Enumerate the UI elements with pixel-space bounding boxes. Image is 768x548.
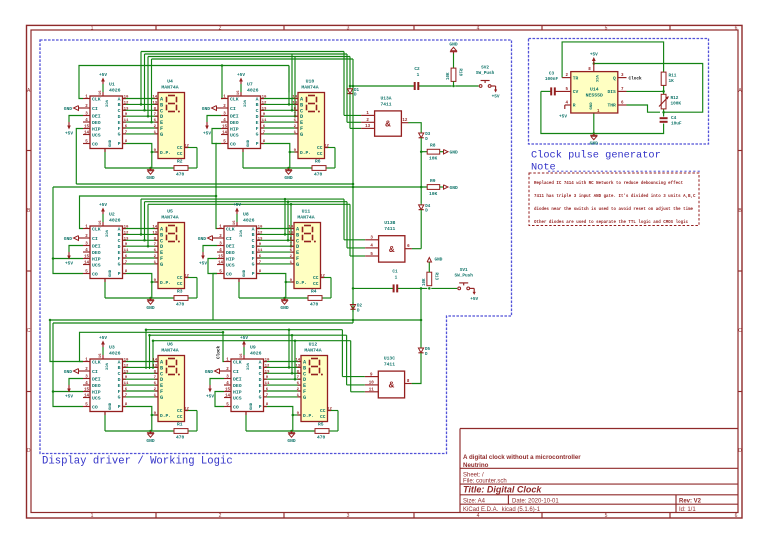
svg-text:R6: R6: [315, 159, 321, 165]
svg-text:GND: GND: [146, 175, 155, 181]
svg-text:4: 4: [477, 25, 480, 31]
svg-text:+5V: +5V: [199, 262, 207, 267]
svg-text:R5: R5: [318, 422, 324, 428]
svg-text:F: F: [252, 256, 255, 262]
svg-text:P: P: [118, 271, 121, 277]
svg-text:16: 16: [237, 90, 241, 95]
svg-text:14: 14: [152, 226, 157, 230]
svg-text:D.P.: D.P.: [300, 150, 311, 156]
svg-text:2: 2: [219, 513, 222, 519]
svg-text:CI: CI: [233, 369, 239, 375]
svg-text:U6: U6: [167, 342, 173, 348]
svg-text:A: A: [256, 96, 259, 102]
svg-text:GND: GND: [109, 139, 113, 147]
svg-text:CI: CI: [92, 369, 98, 375]
svg-text:10K: 10K: [423, 278, 427, 286]
svg-text:THR: THR: [608, 103, 617, 109]
svg-text:GND: GND: [243, 269, 247, 277]
svg-text:2: 2: [219, 25, 222, 31]
svg-text:14: 14: [225, 394, 231, 398]
svg-text:G: G: [118, 262, 121, 268]
svg-text:C: C: [118, 238, 121, 244]
svg-text:16: 16: [99, 220, 103, 225]
svg-text:MAN74A: MAN74A: [161, 85, 178, 91]
svg-text:+5V: +5V: [99, 336, 107, 341]
svg-text:B: B: [259, 365, 262, 371]
svg-text:GND: GND: [202, 106, 211, 112]
svg-text:C: C: [259, 371, 262, 377]
svg-text:Title: Digital Clock: Title: Digital Clock: [463, 485, 542, 495]
svg-text:GND: GND: [109, 402, 113, 410]
svg-text:+5V: +5V: [65, 262, 73, 267]
svg-text:D: D: [256, 114, 259, 120]
svg-text:CI: CI: [230, 106, 236, 112]
svg-text:+5V: +5V: [237, 73, 245, 78]
svg-text:P: P: [118, 404, 121, 410]
svg-text:U9: U9: [250, 345, 256, 351]
svg-text:GND: GND: [198, 236, 207, 242]
svg-text:CC: CC: [320, 414, 326, 420]
svg-text:Size: A4: Size: A4: [463, 499, 486, 505]
svg-text:D: D: [252, 244, 255, 250]
svg-text:6: 6: [735, 25, 738, 31]
svg-text:15: 15: [84, 125, 90, 129]
svg-text:13: 13: [152, 364, 157, 368]
svg-text:4026: 4026: [247, 88, 259, 94]
svg-text:P: P: [118, 141, 121, 147]
svg-text:R2: R2: [177, 159, 183, 165]
svg-text:4: 4: [477, 513, 480, 519]
svg-text:DEO: DEO: [92, 383, 101, 389]
svg-text:+5V: +5V: [559, 115, 567, 120]
svg-text:14: 14: [84, 261, 90, 265]
svg-text:CC: CC: [317, 151, 323, 157]
svg-text:14: 14: [222, 131, 228, 135]
svg-text:SV1: SV1: [460, 268, 468, 273]
svg-text:A: A: [118, 226, 121, 232]
svg-text:13: 13: [292, 101, 297, 105]
svg-text:Neutrino: Neutrino: [463, 462, 489, 469]
svg-text:CLK: CLK: [226, 226, 235, 232]
svg-text:U3: U3: [109, 345, 115, 351]
svg-text:SW_Push: SW_Push: [476, 71, 495, 76]
svg-text:DEO: DEO: [230, 120, 239, 126]
svg-text:DEI: DEI: [92, 376, 101, 382]
svg-text:Note: Note: [531, 162, 556, 174]
svg-text:HIP: HIP: [92, 256, 101, 262]
svg-text:7411: 7411: [384, 362, 395, 368]
svg-text:CC: CC: [320, 408, 326, 414]
svg-text:16: 16: [99, 90, 103, 95]
svg-text:13: 13: [288, 231, 293, 235]
svg-text:GND: GND: [109, 269, 113, 277]
svg-text:470: 470: [310, 301, 319, 307]
svg-text:D: D: [738, 448, 742, 454]
svg-text:14: 14: [292, 96, 297, 100]
svg-text:CI: CI: [226, 236, 232, 242]
svg-text:D.P.: D.P.: [296, 280, 307, 286]
svg-text:7411: 7411: [384, 226, 395, 232]
svg-text:CO: CO: [92, 141, 98, 147]
svg-text:C: C: [118, 371, 121, 377]
svg-text:HIP: HIP: [233, 389, 242, 395]
svg-text:DEI: DEI: [226, 243, 235, 249]
svg-text:U11: U11: [302, 209, 311, 215]
svg-text:B: B: [118, 102, 121, 108]
svg-text:&: &: [389, 381, 395, 391]
svg-text:CC: CC: [177, 408, 183, 414]
svg-text:470: 470: [317, 434, 326, 440]
svg-text:100nF: 100nF: [545, 77, 559, 82]
svg-text:12: 12: [402, 119, 408, 123]
svg-text:15: 15: [225, 388, 231, 392]
svg-text:C1: C1: [392, 270, 398, 275]
svg-text:A: A: [259, 359, 262, 365]
svg-text:B: B: [118, 232, 121, 238]
svg-text:3: 3: [347, 25, 350, 31]
svg-text:+5V: +5V: [203, 132, 211, 137]
svg-text:A: A: [252, 226, 255, 232]
svg-text:D.P.: D.P.: [160, 150, 171, 156]
svg-text:P: P: [252, 271, 255, 277]
svg-text:R3: R3: [177, 289, 183, 295]
svg-text:G: G: [259, 395, 262, 401]
svg-text:CO: CO: [233, 404, 239, 410]
svg-text:F: F: [118, 256, 121, 262]
svg-text:14: 14: [84, 394, 90, 398]
svg-text:HIP: HIP: [226, 256, 235, 262]
svg-text:10K: 10K: [429, 191, 438, 197]
svg-text:GND: GND: [450, 185, 459, 191]
svg-text:DEI: DEI: [230, 113, 239, 119]
svg-text:U8: U8: [243, 212, 249, 218]
svg-text:Rev: V2: Rev: V2: [679, 499, 702, 505]
svg-text:R1: R1: [177, 422, 183, 428]
svg-text:GND: GND: [250, 402, 254, 410]
svg-text:Display driver / Working Logic: Display driver / Working Logic: [42, 456, 233, 468]
svg-text:D: D: [27, 448, 31, 454]
svg-text:GND: GND: [284, 175, 293, 181]
svg-text:CC: CC: [177, 275, 183, 281]
svg-text:U13A: U13A: [380, 95, 391, 101]
svg-text:GND: GND: [450, 150, 459, 156]
svg-text:6: 6: [735, 513, 738, 519]
svg-text:+5V: +5V: [470, 297, 478, 302]
svg-text:U1: U1: [109, 82, 115, 88]
svg-text:GND: GND: [146, 305, 155, 311]
svg-text:MAN74A: MAN74A: [301, 85, 318, 91]
svg-text:KiCad E.D.A. kicad (5.1.6)-1: KiCad E.D.A. kicad (5.1.6)-1: [463, 507, 541, 513]
svg-text:VCC: VCC: [238, 230, 242, 238]
svg-text:14: 14: [288, 226, 293, 230]
svg-text:4026: 4026: [243, 218, 255, 224]
svg-text:CI: CI: [92, 236, 98, 242]
svg-text:G: G: [160, 395, 163, 401]
svg-text:3: 3: [347, 513, 350, 519]
svg-text:E: E: [252, 250, 255, 256]
svg-text:F: F: [259, 389, 262, 395]
svg-text:Q: Q: [613, 75, 616, 81]
svg-text:470: 470: [176, 434, 185, 440]
svg-text:UCS: UCS: [92, 395, 101, 401]
svg-text:D: D: [118, 114, 121, 120]
svg-text:G: G: [160, 262, 163, 268]
svg-text:SW_Push: SW_Push: [454, 273, 473, 278]
svg-text:CC: CC: [177, 151, 183, 157]
svg-text:7411: 7411: [380, 101, 391, 107]
svg-text:Replaced IC 7414 with RC Netwo: Replaced IC 7414 with RC Network to redu…: [534, 181, 684, 186]
svg-text:U5: U5: [167, 209, 173, 215]
svg-text:R10: R10: [458, 69, 462, 77]
svg-text:4026: 4026: [109, 218, 121, 224]
svg-text:CO: CO: [226, 271, 232, 277]
svg-text:10uF: 10uF: [671, 122, 682, 127]
svg-text:+5V: +5V: [65, 132, 73, 137]
svg-text:15: 15: [218, 255, 224, 259]
svg-text:DEI: DEI: [92, 113, 101, 119]
svg-text:D.P.: D.P.: [160, 280, 171, 286]
svg-text:10K: 10K: [447, 72, 451, 80]
svg-text:HIP: HIP: [92, 389, 101, 395]
svg-text:MAN74A: MAN74A: [161, 348, 178, 354]
svg-text:GND: GND: [590, 102, 594, 110]
svg-text:P: P: [256, 141, 259, 147]
svg-text:GND: GND: [64, 369, 73, 375]
svg-text:CO: CO: [230, 141, 236, 147]
svg-text:VCC: VCC: [104, 363, 108, 371]
svg-text:13: 13: [152, 101, 157, 105]
svg-text:diodes near the switch is used: diodes near the switch is used to avoid …: [534, 207, 694, 212]
svg-text:GND: GND: [287, 438, 296, 444]
svg-text:B: B: [252, 232, 255, 238]
svg-text:GND: GND: [64, 106, 73, 112]
svg-text:F: F: [256, 126, 259, 132]
svg-text:P: P: [259, 404, 262, 410]
svg-text:GND: GND: [449, 42, 458, 48]
svg-text:&: &: [389, 245, 395, 255]
svg-text:E: E: [118, 250, 121, 256]
svg-text:A: A: [118, 359, 121, 365]
svg-text:VCC: VCC: [245, 363, 249, 371]
svg-text:Clock pulse generator: Clock pulse generator: [531, 150, 661, 162]
svg-text:CV: CV: [573, 89, 579, 95]
svg-text:R12: R12: [671, 96, 679, 101]
svg-text:D: D: [118, 244, 121, 250]
svg-text:DEO: DEO: [92, 120, 101, 126]
svg-text:Clock: Clock: [629, 76, 643, 81]
svg-text:GND: GND: [205, 369, 214, 375]
svg-text:U4: U4: [167, 79, 173, 85]
svg-text:U12: U12: [309, 342, 318, 348]
svg-text:D3: D3: [425, 133, 431, 137]
svg-text:CO: CO: [92, 271, 98, 277]
svg-text:DEO: DEO: [226, 250, 235, 256]
svg-text:CO: CO: [92, 404, 98, 410]
svg-text:U7: U7: [247, 82, 253, 88]
svg-text:VCC: VCC: [104, 100, 108, 108]
svg-text:4026: 4026: [109, 88, 121, 94]
svg-text:&: &: [385, 120, 391, 130]
svg-text:13: 13: [152, 231, 157, 235]
svg-text:DIS: DIS: [608, 89, 617, 95]
svg-text:470: 470: [176, 171, 185, 177]
svg-text:470: 470: [176, 301, 185, 307]
svg-text:C: C: [252, 238, 255, 244]
svg-text:G: G: [252, 262, 255, 268]
svg-text:G: G: [303, 395, 306, 401]
svg-text:G: G: [118, 395, 121, 401]
svg-text:+5V: +5V: [240, 336, 248, 341]
svg-text:HIP: HIP: [92, 126, 101, 132]
svg-text:CLK: CLK: [233, 359, 242, 365]
svg-text:5: 5: [605, 513, 608, 519]
svg-text:+5V: +5V: [65, 395, 73, 400]
svg-text:CC: CC: [313, 281, 319, 287]
svg-text:C: C: [118, 108, 121, 114]
svg-text:U13B: U13B: [384, 220, 395, 226]
svg-text:1: 1: [417, 73, 420, 78]
svg-text:470: 470: [314, 171, 323, 177]
svg-text:E: E: [118, 120, 121, 126]
svg-text:+5V: +5V: [233, 203, 241, 208]
svg-text:D5: D5: [425, 348, 431, 352]
svg-text:CLK: CLK: [92, 96, 101, 102]
svg-text:10K: 10K: [429, 156, 438, 162]
svg-text:100K: 100K: [671, 102, 682, 107]
svg-text:UCS: UCS: [233, 395, 242, 401]
svg-text:1: 1: [395, 276, 398, 281]
svg-text:7411 has triple 3 input AND ga: 7411 has triple 3 input AND gate. It's d…: [534, 194, 696, 199]
svg-text:R9: R9: [430, 178, 436, 184]
svg-text:SV2: SV2: [481, 66, 489, 71]
svg-text:GND: GND: [247, 139, 251, 147]
svg-text:U2: U2: [109, 212, 115, 218]
svg-text:14: 14: [152, 96, 157, 100]
svg-text:R: R: [573, 103, 576, 109]
svg-text:CC: CC: [177, 414, 183, 420]
svg-text:Other diodes are used to separ: Other diodes are used to separate the TT…: [534, 220, 689, 225]
svg-text:DEI: DEI: [92, 243, 101, 249]
svg-text:VCC: VCC: [104, 230, 108, 238]
svg-text:C: C: [256, 108, 259, 114]
svg-text:E: E: [259, 383, 262, 389]
svg-text:14: 14: [84, 131, 90, 135]
svg-text:UCS: UCS: [92, 262, 101, 268]
svg-text:CLK: CLK: [230, 96, 239, 102]
svg-text:GND: GND: [64, 236, 73, 242]
svg-text:U13C: U13C: [384, 356, 395, 362]
svg-text:+5V: +5V: [99, 203, 107, 208]
svg-text:GND: GND: [590, 141, 599, 147]
svg-text:D2: D2: [357, 305, 363, 309]
svg-text:1: 1: [91, 513, 94, 519]
svg-text:13: 13: [365, 125, 371, 129]
svg-text:G: G: [160, 132, 163, 138]
svg-text:14: 14: [218, 261, 224, 265]
svg-text:1K: 1K: [669, 79, 675, 84]
svg-text:R4: R4: [311, 289, 317, 295]
svg-text:10: 10: [369, 382, 375, 386]
svg-text:4026: 4026: [109, 351, 121, 357]
svg-text:15: 15: [84, 388, 90, 392]
svg-text:HIP: HIP: [230, 126, 239, 132]
svg-text:CC: CC: [177, 281, 183, 287]
svg-text:DEI: DEI: [233, 376, 242, 382]
svg-text:1: 1: [91, 25, 94, 31]
svg-text:13: 13: [295, 364, 300, 368]
svg-text:D: D: [259, 377, 262, 383]
svg-text:CLK: CLK: [92, 226, 101, 232]
svg-text:E: E: [118, 383, 121, 389]
svg-text:G: G: [300, 132, 303, 138]
svg-text:R8: R8: [430, 143, 436, 149]
svg-text:C: C: [738, 328, 742, 334]
svg-text:+5V: +5V: [492, 95, 500, 100]
svg-text:MAN74A: MAN74A: [304, 348, 321, 354]
svg-text:+5V: +5V: [206, 395, 214, 400]
svg-text:G: G: [296, 262, 299, 268]
svg-text:MAN74A: MAN74A: [161, 215, 178, 221]
svg-text:C3: C3: [549, 72, 555, 77]
svg-text:16: 16: [240, 353, 244, 358]
svg-text:14: 14: [295, 359, 300, 363]
svg-text:File: counter.sch: File: counter.sch: [463, 478, 507, 484]
svg-text:C: C: [27, 328, 31, 334]
svg-text:C2: C2: [414, 67, 420, 72]
svg-text:UCS: UCS: [226, 262, 235, 268]
svg-text:D4: D4: [425, 205, 431, 209]
svg-text:11: 11: [369, 389, 375, 393]
svg-text:GND: GND: [280, 305, 289, 311]
svg-text:GND: GND: [146, 438, 155, 444]
svg-text:16: 16: [99, 353, 103, 358]
svg-text:CC: CC: [317, 145, 323, 151]
svg-text:D.P.: D.P.: [160, 413, 171, 419]
svg-text:MAN74A: MAN74A: [297, 215, 314, 221]
svg-text:5: 5: [605, 25, 608, 31]
svg-text:DEO: DEO: [233, 383, 242, 389]
svg-text:Id: 1/1: Id: 1/1: [679, 507, 696, 513]
svg-text:CC: CC: [177, 145, 183, 151]
svg-text:TR: TR: [573, 75, 579, 81]
svg-text:R13: R13: [433, 273, 437, 281]
svg-text:CC: CC: [313, 275, 319, 281]
svg-text:A digital clock without a micr: A digital clock without a microcontrolle…: [463, 454, 581, 461]
svg-text:B: B: [118, 365, 121, 371]
svg-text:15: 15: [222, 125, 228, 129]
svg-text:14: 14: [152, 359, 157, 363]
svg-text:G: G: [118, 132, 121, 138]
svg-text:E: E: [256, 120, 259, 126]
svg-text:D.P.: D.P.: [303, 413, 314, 419]
svg-text:B: B: [256, 102, 259, 108]
svg-text:+5V: +5V: [590, 52, 598, 57]
svg-text:D1: D1: [354, 89, 360, 93]
svg-text:VCC: VCC: [242, 100, 246, 108]
svg-text:DEO: DEO: [92, 250, 101, 256]
svg-text:+5V: +5V: [99, 73, 107, 78]
svg-text:16: 16: [233, 220, 237, 225]
svg-text:A: A: [118, 96, 121, 102]
svg-text:R11: R11: [669, 74, 677, 79]
svg-text:CLK: CLK: [92, 359, 101, 365]
svg-text:F: F: [118, 389, 121, 395]
svg-text:C4: C4: [671, 116, 677, 121]
svg-text:F: F: [118, 126, 121, 132]
svg-text:4026: 4026: [250, 351, 262, 357]
svg-text:CI: CI: [92, 106, 98, 112]
svg-text:Date: 2020-10-01: Date: 2020-10-01: [512, 499, 559, 505]
